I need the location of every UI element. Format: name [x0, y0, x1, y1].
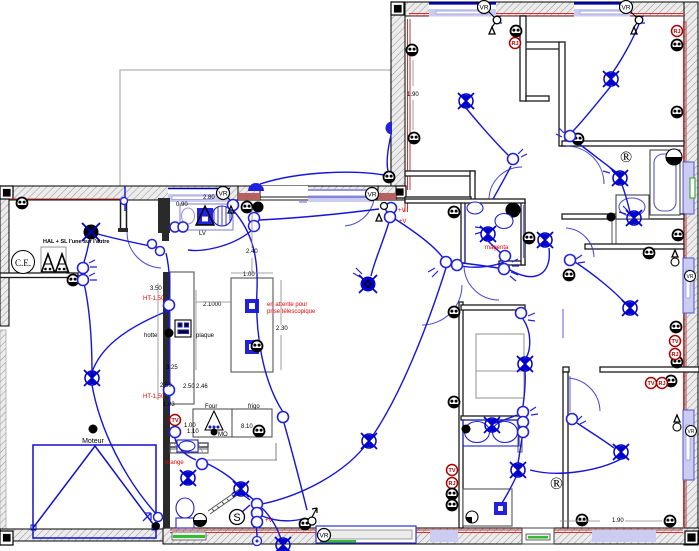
svg-text:LV: LV: [199, 231, 206, 237]
svg-text:VR: VR: [687, 274, 694, 280]
svg-text:0.90: 0.90: [176, 202, 188, 208]
svg-text:1.90: 1.90: [407, 92, 419, 98]
svg-text:1.03: 1.03: [163, 402, 175, 408]
svg-text:2.50: 2.50: [160, 383, 172, 389]
svg-text:plaque: plaque: [196, 333, 215, 339]
svg-text:S: S: [233, 512, 240, 524]
svg-text:hotte: hotte: [144, 333, 158, 339]
svg-text:frigo: frigo: [248, 404, 260, 410]
svg-text:1.10: 1.10: [187, 429, 199, 435]
svg-text:3.50: 3.50: [150, 286, 162, 292]
svg-text:3.25: 3.25: [166, 365, 178, 371]
svg-text:1.90: 1.90: [612, 518, 624, 524]
svg-text:HT-1,50: HT-1,50: [143, 394, 165, 400]
svg-text:MO: MO: [218, 432, 228, 438]
svg-text:HAL + SL l'une sur l'autre: HAL + SL l'une sur l'autre: [43, 239, 109, 245]
svg-text:magenta: magenta: [485, 245, 509, 251]
svg-text:2.50: 2.50: [183, 384, 195, 390]
svg-text:VR: VR: [688, 429, 695, 435]
svg-text:2.30: 2.30: [276, 326, 288, 332]
svg-text:®: ®: [620, 149, 632, 166]
svg-text:orange: orange: [165, 460, 184, 466]
svg-text:en attente pour: en attente pour: [267, 302, 307, 308]
svg-text:2.46: 2.46: [196, 384, 208, 390]
svg-text:HT-1,50: HT-1,50: [143, 296, 165, 302]
svg-text:+V: +V: [265, 518, 273, 524]
svg-text:2.40: 2.40: [246, 249, 258, 255]
svg-text:Four: Four: [205, 404, 217, 410]
svg-text:prise télescopique: prise télescopique: [267, 309, 316, 315]
svg-text:C.E.: C.E.: [15, 258, 31, 268]
svg-text:2.1000: 2.1000: [203, 302, 222, 308]
svg-text:Moteur: Moteur: [82, 438, 104, 445]
svg-text:8.10: 8.10: [241, 424, 253, 430]
svg-text:+V: +V: [398, 208, 406, 214]
svg-text:+V: +V: [399, 219, 407, 225]
svg-text:2.80: 2.80: [203, 195, 215, 201]
svg-text:®: ®: [550, 474, 563, 493]
